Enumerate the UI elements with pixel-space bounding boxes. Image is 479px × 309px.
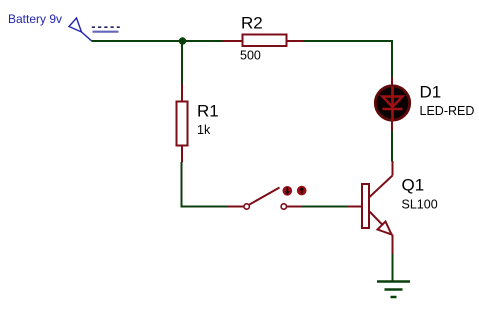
transistor Q1 collector pin <box>370 161 393 197</box>
svg-text:LED-RED: LED-RED <box>420 104 475 118</box>
LED D1 bottom pin <box>391 120 393 132</box>
switch SW1 blade <box>250 188 280 205</box>
switch SW1 right contact circle <box>281 204 286 209</box>
label R1 <box>197 101 219 120</box>
transistor Q1 base bar <box>362 184 369 228</box>
transistor Q1 base pin <box>347 206 362 208</box>
resistor R2 left pin <box>223 40 242 42</box>
switch SW1 left contact circle <box>244 204 249 209</box>
transistor Q1 emitter pin with arrow <box>370 212 393 255</box>
label R2 <box>241 14 263 33</box>
svg-text:R2: R2 <box>241 14 263 33</box>
switch actuator button up-arrow <box>297 186 307 196</box>
battery label "Battery 9v" <box>8 12 62 26</box>
svg-text:SL100: SL100 <box>402 197 438 211</box>
battery terminal BT1 triangle <box>69 18 92 41</box>
junction node at battery/R1/R2 <box>179 37 186 44</box>
svg-text:R1: R1 <box>197 101 219 120</box>
label Q1 <box>402 175 425 194</box>
resistor R2 right pin <box>288 40 304 42</box>
svg-text:Q1: Q1 <box>402 175 425 194</box>
LED D1 top pin <box>391 77 393 87</box>
value 500 <box>240 49 261 63</box>
LED D1 body circle <box>375 86 409 120</box>
wire R1 to switch (left column + bottom run) <box>182 162 228 207</box>
wire junction down to R1 <box>181 42 183 85</box>
wire R2 to LED corner <box>303 41 392 78</box>
wire Q1 emitter to ground <box>392 254 394 281</box>
wire battery to R2 (horizontal top) <box>92 40 223 42</box>
switch SW1 right pin <box>287 206 302 208</box>
value LED-RED <box>420 104 475 118</box>
wire LED to Q1 collector <box>391 131 393 162</box>
ground symbol <box>377 282 410 298</box>
svg-text:1k: 1k <box>197 123 211 137</box>
wire switch to Q1 base <box>302 206 347 208</box>
battery terminal dashed line <box>92 26 120 28</box>
value SL100 <box>402 197 438 211</box>
resistor R2 body <box>243 35 287 47</box>
resistor R1 body <box>177 102 188 146</box>
svg-text:500: 500 <box>240 49 261 63</box>
svg-text:Battery 9v: Battery 9v <box>8 12 62 26</box>
resistor R1 bottom pin <box>181 146 183 163</box>
value 1k <box>197 123 211 137</box>
switch SW1 left pin <box>228 206 244 208</box>
battery terminal solid line <box>93 31 119 33</box>
LED D1 diode symbol <box>383 87 403 120</box>
switch actuator button down-arrow <box>283 186 293 196</box>
resistor R1 top pin <box>181 84 183 102</box>
svg-text:D1: D1 <box>420 82 442 101</box>
label D1 <box>420 82 442 101</box>
